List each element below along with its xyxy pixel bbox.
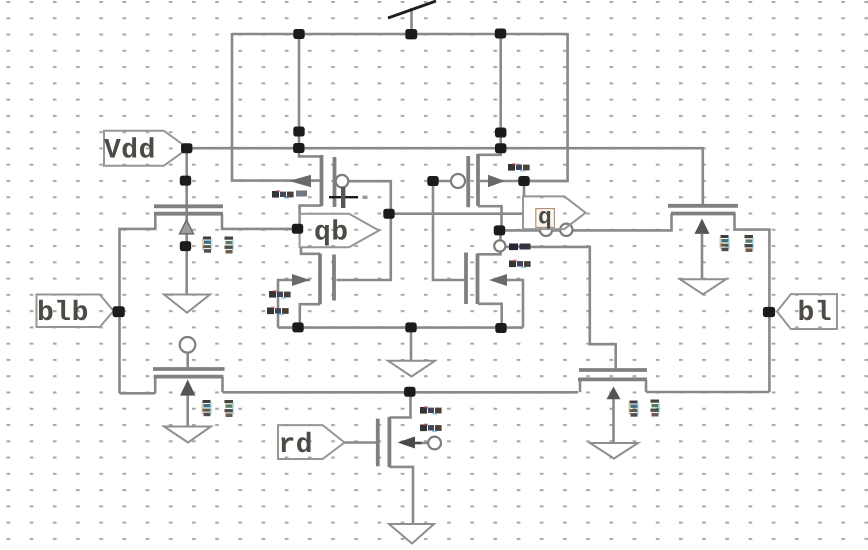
svg-text:q: q <box>538 205 552 231</box>
svg-text:qb: qb <box>314 218 349 249</box>
svg-text:Vdd: Vdd <box>104 136 156 167</box>
svg-text:rd: rd <box>279 430 314 461</box>
svg-text:bl: bl <box>798 298 833 329</box>
svg-text:blb: blb <box>37 298 89 329</box>
